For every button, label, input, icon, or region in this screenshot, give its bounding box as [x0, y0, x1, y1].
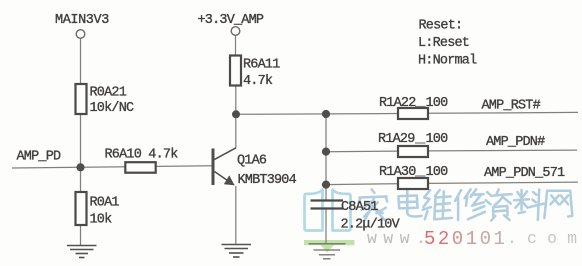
- svg-text:KMBT3904: KMBT3904: [238, 173, 297, 188]
- svg-text:MAIN3V3: MAIN3V3: [55, 13, 109, 28]
- svg-text:100: 100: [426, 96, 449, 111]
- svg-text:0: 0: [480, 228, 491, 250]
- svg-text:Reset:: Reset:: [419, 19, 463, 34]
- svg-text:4.7k: 4.7k: [243, 74, 273, 89]
- svg-text:Q1A6: Q1A6: [237, 154, 267, 169]
- svg-text:5: 5: [424, 228, 435, 250]
- svg-text:R1A22: R1A22: [379, 96, 416, 111]
- svg-text:0: 0: [452, 228, 463, 250]
- svg-text:.com: .com: [507, 229, 577, 248]
- svg-text:L:Reset: L:Reset: [418, 36, 469, 51]
- svg-text:R6A11: R6A11: [243, 58, 280, 73]
- svg-text:AMP_RST#: AMP_RST#: [482, 99, 541, 114]
- svg-text:100: 100: [426, 165, 449, 180]
- svg-text:R6A10 4.7k: R6A10 4.7k: [105, 147, 179, 162]
- svg-text:1: 1: [466, 228, 477, 250]
- svg-text:R0A21: R0A21: [90, 86, 127, 101]
- svg-text:AMP_PDN#: AMP_PDN#: [486, 135, 545, 150]
- svg-text:C8A51: C8A51: [341, 200, 378, 215]
- svg-text:2: 2: [438, 228, 449, 250]
- svg-text:AMP_PD: AMP_PD: [17, 150, 62, 165]
- svg-text:R1A29: R1A29: [378, 132, 415, 147]
- svg-text:100: 100: [426, 132, 449, 147]
- svg-text:10k/NC: 10k/NC: [90, 101, 135, 116]
- svg-text:R1A30: R1A30: [379, 165, 416, 180]
- svg-text:AMP_PDN_571: AMP_PDN_571: [484, 166, 565, 181]
- svg-text:+3.3V_AMP: +3.3V_AMP: [198, 13, 264, 28]
- svg-text:R0A1: R0A1: [90, 196, 120, 211]
- svg-text:2.2μ/10V: 2.2μ/10V: [341, 218, 401, 233]
- svg-text:H:Normal: H:Normal: [418, 54, 477, 69]
- svg-text:1: 1: [494, 228, 505, 250]
- svg-text:10k: 10k: [90, 213, 113, 228]
